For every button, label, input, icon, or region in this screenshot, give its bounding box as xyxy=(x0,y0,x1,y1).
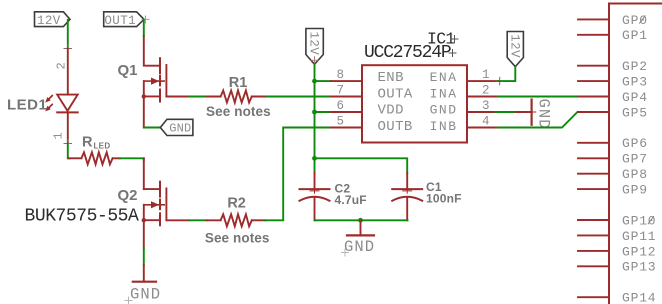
cross at pin1 wire end xyxy=(496,77,504,84)
IC pin 4 INB stub xyxy=(467,127,498,129)
LED emission arrow 2 xyxy=(48,104,52,108)
junction at pin6 xyxy=(312,110,317,115)
svg-text:GP4: GP4 xyxy=(622,90,648,105)
junction at pin8 xyxy=(312,79,317,84)
svg-text:GP6: GP6 xyxy=(622,136,648,151)
IC pin 7 OUTA stub xyxy=(331,96,362,98)
pin GP3 xyxy=(578,80,609,82)
svg-text:2: 2 xyxy=(55,62,69,69)
svg-text:GND: GND xyxy=(430,102,458,117)
svg-text:GP13: GP13 xyxy=(622,260,656,275)
svg-text:GND: GND xyxy=(344,238,375,256)
resistor R_LED xyxy=(69,157,82,159)
ground symbol GND (Q2) xyxy=(133,281,156,283)
wire Q1 source to GND flag xyxy=(144,127,161,129)
svg-text:Q1: Q1 xyxy=(117,62,137,79)
svg-text:GP11: GP11 xyxy=(622,229,656,244)
Q1 gate bar xyxy=(165,65,167,96)
svg-text:1: 1 xyxy=(482,68,490,82)
pin GP1 xyxy=(578,34,609,36)
Q1 source down lead xyxy=(143,96,145,127)
junction at GND stem xyxy=(358,218,363,223)
wire pin3 to GND symbol xyxy=(495,111,515,113)
svg-text:R2: R2 xyxy=(227,195,246,211)
svg-text:5: 5 xyxy=(336,114,344,128)
svg-text:GP8: GP8 xyxy=(622,167,648,182)
svg-text:LED: LED xyxy=(94,142,111,151)
Q2 gate bar xyxy=(165,188,167,220)
pin GP0 xyxy=(578,18,609,20)
pin GP9 xyxy=(578,188,609,190)
wire 12V flag to LED anode xyxy=(67,20,69,49)
wire caps top branch xyxy=(315,158,408,173)
LED cathode bar xyxy=(57,111,77,113)
wire ENA to 12V xyxy=(498,67,515,81)
cross after UCC27524P xyxy=(449,50,456,57)
svg-text:OUTA: OUTA xyxy=(378,87,413,103)
supply +12V flag P3 (right of IC) xyxy=(507,32,523,67)
svg-text:LED1: LED1 xyxy=(7,97,47,114)
IC pin 6 VDD stub xyxy=(315,111,332,113)
cross at LED pin1 end xyxy=(64,140,72,147)
supply +12V flag P2 (above IC) xyxy=(306,29,323,65)
pin GP5 xyxy=(578,111,609,113)
svg-text:GND: GND xyxy=(130,285,161,303)
wire down to Q2 xyxy=(143,158,145,189)
svg-text:OUTB: OUTB xyxy=(378,119,413,135)
pin GP13 xyxy=(578,265,609,267)
svg-text:12V: 12V xyxy=(37,14,61,28)
ground symbol GND (caps) xyxy=(360,220,362,235)
Q1 source bar link xyxy=(144,95,160,97)
ground symbol GND (IC pin3), rotated xyxy=(530,100,532,125)
cross after IC1 xyxy=(451,36,458,43)
svg-text:VDD: VDD xyxy=(378,102,404,118)
pin GP14 xyxy=(578,296,609,298)
svg-text:R1: R1 xyxy=(229,75,248,91)
pin GP8 xyxy=(578,173,609,175)
svg-text:Q2: Q2 xyxy=(117,187,137,204)
node OUT1 flag xyxy=(104,12,149,28)
svg-text:1: 1 xyxy=(52,132,66,139)
Q2 bulk-source junction xyxy=(142,218,146,222)
svg-text:7: 7 xyxy=(336,83,344,97)
LED1 pin 1 lead xyxy=(67,112,69,143)
svg-text:GP5: GP5 xyxy=(622,105,648,120)
resistor R1 xyxy=(166,96,189,98)
svg-text:GP1: GP1 xyxy=(622,28,648,43)
svg-text:100nF: 100nF xyxy=(426,192,462,206)
pin GP11 xyxy=(578,234,609,236)
wire caps bottom rail xyxy=(315,219,408,221)
header box xyxy=(609,4,662,304)
svg-text:See notes: See notes xyxy=(205,230,270,245)
svg-text:4: 4 xyxy=(482,115,490,129)
svg-text:GND: GND xyxy=(169,122,191,136)
resistor R2 xyxy=(166,219,189,221)
svg-text:GND: GND xyxy=(535,99,553,130)
Q2 body diode arrow xyxy=(144,204,164,206)
wire INA to GP4 xyxy=(498,96,578,98)
svg-text:OUT1: OUT1 xyxy=(104,14,136,28)
svg-text:GP12: GP12 xyxy=(622,244,656,259)
capacitor C1 xyxy=(392,173,422,220)
pin GP2 xyxy=(578,65,609,67)
Q2 source down lead xyxy=(143,220,145,248)
wire R1 to IC OUTA xyxy=(267,96,331,98)
svg-text:GP7: GP7 xyxy=(622,152,648,167)
LED emission arrow 1 xyxy=(48,96,52,100)
svg-text:12V: 12V xyxy=(507,34,521,58)
svg-text:2: 2 xyxy=(482,84,490,98)
svg-text:See notes: See notes xyxy=(206,104,271,119)
pin GP6 xyxy=(578,142,609,144)
capacitor C2 xyxy=(300,173,330,220)
Q1 channel bars xyxy=(159,58,161,73)
supply +12V flag P1 xyxy=(35,12,71,28)
ground flag GND (Q1) xyxy=(160,119,193,135)
svg-text:BUK7575-55A: BUK7575-55A xyxy=(25,207,140,227)
LED1 pin 2 lead xyxy=(67,49,69,95)
IC pin 1 ENA stub xyxy=(467,80,498,82)
svg-text:INA: INA xyxy=(430,87,458,102)
pin GP10 xyxy=(578,219,609,221)
svg-text:GP0: GP0 xyxy=(622,13,648,28)
LED D1 triangle xyxy=(57,95,77,111)
svg-text:UCC27524P: UCC27524P xyxy=(364,43,451,63)
svg-text:R: R xyxy=(82,134,93,150)
svg-text:6: 6 xyxy=(336,99,344,113)
Q2 bulk wire xyxy=(143,205,145,220)
svg-text:GP9: GP9 xyxy=(622,183,648,198)
wire Q2 source to GND xyxy=(143,248,145,265)
junction at caps branch xyxy=(312,156,317,161)
transistor Q1 xyxy=(142,20,167,128)
wire R2 to IC OUTB xyxy=(265,128,331,221)
Q2 channel bars xyxy=(159,182,161,197)
header pin labels xyxy=(622,13,656,304)
svg-text:INB: INB xyxy=(430,119,458,134)
IC1 box xyxy=(362,65,467,142)
pin GP12 xyxy=(578,250,609,252)
IC pin 2 INA stub xyxy=(467,96,498,98)
svg-text:8: 8 xyxy=(336,68,344,82)
wire INB to GP5 xyxy=(498,112,579,128)
transistor Q2 xyxy=(142,182,167,248)
VDD bus wire 12V xyxy=(314,64,316,173)
Q2 drain link xyxy=(144,188,160,190)
Q1 body diode arrow xyxy=(144,80,164,82)
wire LED cathode to R_LED xyxy=(68,144,70,159)
pin GP4 xyxy=(578,96,609,98)
svg-text:GP3: GP3 xyxy=(622,75,648,90)
svg-text:GP14: GP14 xyxy=(622,291,656,304)
wire R_LED to Q2 drain xyxy=(120,158,144,160)
svg-text:GP2: GP2 xyxy=(622,59,648,74)
svg-text:12V: 12V xyxy=(307,32,321,56)
Q2 source bar link xyxy=(144,219,160,221)
header pin stubs xyxy=(578,19,609,297)
pin GP7 xyxy=(578,157,609,159)
IC pin 8 ENB stub xyxy=(315,80,332,82)
svg-text:ENB: ENB xyxy=(378,70,404,86)
Q1 bulk wire xyxy=(143,81,145,96)
svg-text:4.7uF: 4.7uF xyxy=(335,193,367,207)
Q1 bulk-source junction xyxy=(142,94,146,98)
IC pin 3 GND stub xyxy=(467,111,495,113)
cross at LED pin2 end xyxy=(64,45,72,52)
svg-text:GP10: GP10 xyxy=(622,213,656,228)
svg-text:3: 3 xyxy=(482,99,490,113)
Q1 drain lead from OUT1 xyxy=(143,20,145,36)
svg-text:ENA: ENA xyxy=(430,70,458,85)
IC pin 5 OUTB stub xyxy=(331,127,362,129)
